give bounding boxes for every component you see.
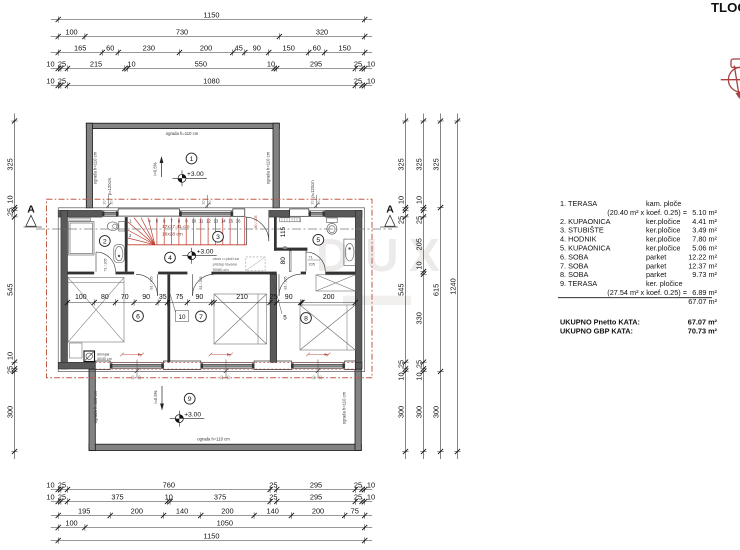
north window 60 (bathroom 2) <box>102 210 118 217</box>
svg-text:+3.00: +3.00 <box>197 249 214 256</box>
south french window 2 <box>201 362 254 369</box>
svg-text:325: 325 <box>432 158 441 170</box>
svg-text:230: 230 <box>143 44 155 53</box>
svg-text:10: 10 <box>6 195 15 203</box>
svg-text:parket: parket <box>646 261 666 270</box>
door to bathroom 5 <box>306 248 325 271</box>
svg-text:ograda h=110 cm: ograda h=110 cm <box>93 151 98 184</box>
room7 pillow line <box>257 294 259 344</box>
north facade thin outer line <box>58 207 365 209</box>
level marker +3.00 hallway <box>182 248 217 264</box>
svg-text:5.10 m²: 5.10 m² <box>692 208 717 217</box>
north wall segment 1 <box>58 210 102 217</box>
north window 200 (stairs) <box>180 210 233 217</box>
niche handle <box>282 246 287 249</box>
svg-text:150: 150 <box>339 44 351 53</box>
svg-text:20: 20 <box>208 201 212 205</box>
svg-text:200: 200 <box>200 44 212 53</box>
window sill labels north 2 <box>201 195 212 208</box>
right dimension line 3 325-615-300 <box>432 114 444 460</box>
svg-text:ker. pločice: ker. pločice <box>646 279 683 288</box>
svg-text:67.07 m²: 67.07 m² <box>688 297 717 306</box>
svg-text:25: 25 <box>58 493 66 502</box>
room label 3 (stubiste) <box>213 231 224 242</box>
svg-text:550: 550 <box>195 60 207 69</box>
svg-text:200: 200 <box>131 507 143 516</box>
north symbol <box>721 59 740 99</box>
svg-text:70: 70 <box>121 294 129 301</box>
red dotted line over south windows lower <box>95 368 355 370</box>
svg-text:10: 10 <box>367 493 375 502</box>
staircase treads <box>128 217 247 245</box>
svg-text:300: 300 <box>432 406 441 418</box>
top dimension line 100-730-320 <box>51 28 373 40</box>
svg-text:545: 545 <box>6 284 15 296</box>
bathroom5 toilet <box>327 218 338 234</box>
window sill labels south 2 <box>220 360 231 380</box>
svg-text:150: 150 <box>283 44 295 53</box>
svg-text:330: 330 <box>415 312 424 324</box>
door to bathroom 2 <box>96 252 116 272</box>
svg-text:75: 75 <box>351 507 359 516</box>
svg-text:10: 10 <box>367 60 375 69</box>
svg-text:80: 80 <box>280 257 287 265</box>
svg-text:5. KUPAONICA: 5. KUPAONICA <box>560 244 611 253</box>
svg-text:parket: parket <box>646 270 666 279</box>
room8 bed <box>300 305 355 350</box>
svg-text:20: 20 <box>319 376 323 380</box>
room label 7 (soba) <box>196 311 207 322</box>
room6 pillow line <box>68 282 124 284</box>
svg-text:9.73 m²: 9.73 m² <box>692 270 717 279</box>
upper terrace slope arrow i=0.5% <box>153 156 164 177</box>
bathroom2 shelf <box>69 218 91 221</box>
svg-text:20: 20 <box>317 201 321 205</box>
svg-text:1150: 1150 <box>204 532 220 541</box>
south wall pier box 4 <box>345 361 356 370</box>
svg-text:ker.pločice: ker.pločice <box>646 217 680 226</box>
corridor wall segment 2 <box>116 272 135 275</box>
roof outline dashed red <box>47 199 373 378</box>
svg-text:25: 25 <box>354 60 362 69</box>
svg-text:ograda h=110 cm: ograda h=110 cm <box>342 391 347 424</box>
room label 5 (kupaonica) <box>313 234 324 245</box>
east wall <box>355 210 362 369</box>
interior dimension chain <box>65 294 358 306</box>
svg-text:90: 90 <box>285 294 293 301</box>
west wall <box>61 210 68 369</box>
room label 2 (kupaonica) <box>99 236 110 247</box>
svg-text:7.80 m²: 7.80 m² <box>692 235 717 244</box>
svg-text:TLOCRT KATA: TLOCRT KATA <box>711 0 740 15</box>
svg-text:60: 60 <box>106 44 114 53</box>
svg-text:20: 20 <box>103 201 107 205</box>
svg-text:10: 10 <box>415 372 424 380</box>
red window dim 3 <box>306 353 330 357</box>
closet niche shelf <box>280 218 301 222</box>
svg-text:10: 10 <box>6 352 15 360</box>
svg-text:730: 730 <box>176 28 188 37</box>
svg-text:(20.40 m² x koef. 0.25) =: (20.40 m² x koef. 0.25) = <box>607 208 687 217</box>
svg-text:ograda h=110 cm: ograda h=110 cm <box>197 437 230 442</box>
svg-text:10: 10 <box>267 60 275 69</box>
svg-text:5: 5 <box>316 237 320 244</box>
svg-text:2. KUPAONICA: 2. KUPAONICA <box>560 217 611 226</box>
east facade thin outer line <box>364 208 366 372</box>
svg-text:1: 1 <box>190 156 194 163</box>
svg-text:25: 25 <box>58 77 66 86</box>
svg-text:100: 100 <box>65 28 77 37</box>
svg-text:8: 8 <box>304 315 308 322</box>
svg-text:10: 10 <box>178 314 186 321</box>
top dimension line 1150 <box>51 11 373 23</box>
svg-text:7: 7 <box>199 314 203 321</box>
svg-text:195: 195 <box>78 507 90 516</box>
svg-text:8. SOBA: 8. SOBA <box>560 270 589 279</box>
room area table <box>558 199 718 306</box>
red window dim 1 <box>120 353 144 357</box>
svg-text:71: 71 <box>309 256 313 260</box>
wall room2/stairwell <box>125 217 128 272</box>
svg-text:81 / 205: 81 / 205 <box>283 277 287 290</box>
svg-text:4: 4 <box>168 255 172 262</box>
south wall segment 2 <box>355 362 362 369</box>
svg-text:6. SOBA: 6. SOBA <box>560 252 589 261</box>
svg-text:25: 25 <box>6 208 15 216</box>
watermark <box>316 229 440 305</box>
upper terrace railing left <box>86 123 92 208</box>
room6 bed <box>68 278 124 343</box>
svg-text:115: 115 <box>280 226 287 237</box>
north wall pier box 1 <box>233 209 245 216</box>
lower terrace railing left <box>89 369 95 450</box>
bottom dimension line 100-1050 <box>51 519 373 531</box>
svg-text:10: 10 <box>46 77 54 86</box>
bathroom5 sink <box>344 239 355 265</box>
svg-text:25: 25 <box>269 481 277 490</box>
svg-text:parket: parket <box>646 252 666 261</box>
west facade thin outer line <box>57 208 59 372</box>
south facade thin outer line <box>58 371 365 373</box>
room label 4 (hodnik) <box>165 252 176 263</box>
staircase tread numbers <box>129 219 241 239</box>
svg-text:12.37 m²: 12.37 m² <box>688 261 717 270</box>
room8 closet <box>316 275 355 291</box>
svg-text:100: 100 <box>65 519 77 528</box>
svg-text:90 / 205: 90 / 205 <box>254 216 258 229</box>
svg-text:60: 60 <box>313 44 321 53</box>
svg-text:i=0.5%: i=0.5% <box>153 162 158 175</box>
svg-text:545: 545 <box>397 284 406 296</box>
section marker A left <box>24 204 43 228</box>
svg-text:20: 20 <box>138 376 142 380</box>
svg-text:67.07 m²: 67.07 m² <box>688 318 718 327</box>
wall rooms 7/8 <box>270 274 277 362</box>
right dimension line 1 325-10-25-545-25-10-300 <box>397 114 409 460</box>
svg-text:ker.pločice: ker.pločice <box>646 235 680 244</box>
room label 9 (terasa) <box>184 393 195 404</box>
corridor wall segment 5 <box>301 272 306 275</box>
svg-text:295: 295 <box>310 493 322 502</box>
svg-text:9: 9 <box>188 396 192 403</box>
svg-text:20: 20 <box>131 376 135 380</box>
svg-text:i=0.5%: i=0.5% <box>153 390 158 403</box>
bottom dimension line 195-200-140-200-140-200-75 <box>51 507 373 519</box>
door to room 8 <box>279 274 301 296</box>
svg-text:25: 25 <box>415 360 424 368</box>
svg-text:10: 10 <box>367 77 375 86</box>
svg-text:90: 90 <box>142 294 150 301</box>
south french window 3 <box>291 362 344 369</box>
window sill labels south 1 <box>131 360 142 380</box>
bathroom2 shower <box>69 222 95 256</box>
south french window 1 <box>110 362 163 369</box>
svg-text:300: 300 <box>397 406 406 418</box>
svg-text:1240: 1240 <box>449 278 458 294</box>
svg-text:81 / 205: 81 / 205 <box>199 277 203 290</box>
north wall pier box 2 <box>290 209 309 216</box>
svg-text:300: 300 <box>6 406 15 418</box>
svg-text:ker.pločice: ker.pločice <box>646 244 680 253</box>
table totals <box>560 318 718 336</box>
lower terrace slope arrow i=0.5% <box>153 386 164 411</box>
wall rooms 6/7 <box>167 274 170 362</box>
svg-text:90: 90 <box>253 44 261 53</box>
window sill labels north 1 <box>103 195 114 208</box>
svg-text:70.73 m²: 70.73 m² <box>688 326 718 335</box>
svg-text:90: 90 <box>196 294 204 301</box>
svg-text:11: 11 <box>199 219 204 224</box>
svg-text:10: 10 <box>46 481 54 490</box>
corridor wall segment 4 <box>211 272 276 275</box>
svg-text:375: 375 <box>111 493 123 502</box>
svg-text:14: 14 <box>221 219 226 224</box>
partition below niche <box>290 251 291 272</box>
north window 60 (bathroom 5) <box>309 210 325 217</box>
chimney dimnjak <box>84 351 95 362</box>
svg-text:165: 165 <box>74 44 86 53</box>
svg-text:15: 15 <box>228 219 233 224</box>
svg-text:20: 20 <box>109 201 113 205</box>
svg-text:20: 20 <box>201 201 205 205</box>
svg-text:13: 13 <box>214 219 219 224</box>
svg-text:205: 205 <box>309 263 315 267</box>
svg-text:10: 10 <box>415 196 424 204</box>
bathroom2 toilet <box>107 222 124 232</box>
svg-text:A: A <box>386 204 394 216</box>
svg-text:295: 295 <box>310 60 322 69</box>
svg-text:25: 25 <box>270 294 278 301</box>
door to room 7 <box>193 274 215 296</box>
staircase direction fan <box>128 218 155 245</box>
svg-text:10: 10 <box>397 372 406 380</box>
section line A-A <box>36 228 392 230</box>
svg-text:75: 75 <box>176 294 184 301</box>
section marker A right <box>380 204 398 228</box>
svg-text:10: 10 <box>367 481 375 490</box>
svg-text:p=120cm: p=120cm <box>107 177 112 195</box>
svg-text:5.06 m²: 5.06 m² <box>692 244 717 253</box>
door label 71/205 room5 <box>308 256 321 267</box>
svg-text:35: 35 <box>159 294 167 301</box>
svg-text:+3.00: +3.00 <box>184 411 201 418</box>
svg-text:1150: 1150 <box>204 11 220 20</box>
svg-text:200: 200 <box>323 294 335 301</box>
svg-text:10: 10 <box>46 493 54 502</box>
svg-text:20: 20 <box>310 201 314 205</box>
svg-text:210: 210 <box>236 294 248 301</box>
top dimension line 165..150 <box>51 44 373 56</box>
svg-text:20: 20 <box>220 376 224 380</box>
svg-text:12.22 m²: 12.22 m² <box>688 252 717 261</box>
svg-text:ograda h=110 cm: ograda h=110 cm <box>166 131 199 136</box>
attic opening dashed rect <box>246 257 265 271</box>
closet niche wall south <box>274 248 307 251</box>
svg-text:140: 140 <box>267 507 279 516</box>
window sill labels north 3 <box>310 195 321 208</box>
window sill labels south 3 <box>312 360 323 380</box>
svg-text:215: 215 <box>90 60 102 69</box>
level marker +3.00 upper terrace <box>173 170 208 186</box>
window frame nubs <box>102 211 345 368</box>
svg-text:25: 25 <box>354 481 362 490</box>
svg-text:10: 10 <box>397 196 406 204</box>
bottom dimension line 10-25-760-25-295-25-10 <box>46 481 375 493</box>
bathroom2 sink column <box>114 245 125 263</box>
svg-text:80: 80 <box>101 294 109 301</box>
svg-text:1050: 1050 <box>217 519 233 528</box>
corridor wall segment 6 <box>325 272 355 275</box>
callout wall 10 <box>170 292 189 322</box>
svg-text:UKUPNO GBP KATA:: UKUPNO GBP KATA: <box>560 326 633 335</box>
svg-text:25: 25 <box>415 216 424 224</box>
svg-text:20: 20 <box>227 376 231 380</box>
svg-text:10: 10 <box>415 261 424 269</box>
svg-text:A: A <box>27 204 35 216</box>
svg-text:1. TERASA: 1. TERASA <box>560 199 597 208</box>
svg-text:325: 325 <box>415 158 424 170</box>
door to room 6 <box>136 274 158 296</box>
svg-text:205: 205 <box>415 238 424 250</box>
left dimension line 325-10-25-545-25-10-300 <box>6 114 18 460</box>
svg-text:375: 375 <box>214 493 226 502</box>
svg-text:25: 25 <box>397 360 406 368</box>
red window dim 2 <box>209 353 233 357</box>
svg-text:kam. ploče: kam. ploče <box>646 199 681 208</box>
lower terrace railing bottom <box>89 444 361 450</box>
svg-text:16: 16 <box>236 219 241 224</box>
room label 1 (terasa) <box>186 153 197 164</box>
corridor wall segment 1 <box>68 272 95 275</box>
svg-text:9. TERASA: 9. TERASA <box>560 279 597 288</box>
svg-text:10: 10 <box>127 60 135 69</box>
room label 6 (soba) <box>133 311 144 322</box>
svg-text:3: 3 <box>216 234 220 241</box>
svg-text:325: 325 <box>397 158 406 170</box>
svg-text:200: 200 <box>312 507 324 516</box>
lower terrace railing right <box>355 369 361 450</box>
svg-text:10: 10 <box>165 493 173 502</box>
svg-text:(27.54 m² x koef. 0.25) =: (27.54 m² x koef. 0.25) = <box>607 288 687 297</box>
svg-text:200: 200 <box>221 507 233 516</box>
svg-text:2: 2 <box>103 238 107 245</box>
right dimension line 2 325-10-25-205-10-330-25-10-300 <box>415 114 427 460</box>
right dimension line 4 1240 <box>449 114 461 460</box>
svg-text:81 / 205: 81 / 205 <box>149 277 153 290</box>
room label 8 (soba) <box>301 313 312 324</box>
svg-text:10: 10 <box>191 219 196 224</box>
door to upper terrace <box>245 217 269 241</box>
top dimension line 10-25-1080-25-10 <box>46 77 375 89</box>
svg-text:ograda h=110 cm: ograda h=110 cm <box>266 151 271 184</box>
svg-text:6.89 m²: 6.89 m² <box>692 288 717 297</box>
svg-text:12: 12 <box>206 219 211 224</box>
svg-text:16x28 cm: 16x28 cm <box>162 231 183 237</box>
svg-text:4. HODNIK: 4. HODNIK <box>560 235 597 244</box>
room8 pillow line <box>346 305 348 350</box>
south wall pier box 1 <box>95 361 110 370</box>
svg-text:ograda h=110 cm: ograda h=110 cm <box>93 390 98 423</box>
south wall pier box 2 <box>164 361 201 370</box>
svg-text:+3.00: +3.00 <box>187 171 204 178</box>
svg-text:615: 615 <box>432 284 441 296</box>
svg-text:300: 300 <box>415 406 424 418</box>
svg-text:UKUPNO Pnetto KATA:: UKUPNO Pnetto KATA: <box>560 318 640 327</box>
svg-text:ker.pločice: ker.pločice <box>646 226 680 235</box>
south wall segment 1 <box>58 362 95 369</box>
svg-text:45: 45 <box>235 44 243 53</box>
closet niche wall west <box>274 217 277 251</box>
bottom dimension line 10-25-375-10-375-25-295-25-10 <box>46 493 375 505</box>
svg-text:6: 6 <box>136 313 140 320</box>
svg-text:p=120cm: p=120cm <box>310 180 315 198</box>
svg-text:100: 100 <box>75 294 87 301</box>
bottom dimension line 1150 <box>51 532 373 544</box>
svg-text:25: 25 <box>6 366 15 374</box>
level marker +3.00 lower terrace <box>170 411 205 427</box>
north wall lintel box over stairwell <box>118 209 179 216</box>
svg-text:320: 320 <box>316 28 328 37</box>
svg-text:25: 25 <box>354 77 362 86</box>
room6 nightstand <box>70 343 83 358</box>
svg-text:1080: 1080 <box>203 77 219 86</box>
corridor wall segment 3 <box>158 272 187 275</box>
svg-text:71 / 205: 71 / 205 <box>103 259 107 272</box>
svg-text:5: 5 <box>283 315 287 322</box>
svg-text:760: 760 <box>163 481 175 490</box>
svg-text:25: 25 <box>58 481 66 490</box>
svg-text:3. STUBIŠTE: 3. STUBIŠTE <box>560 226 604 235</box>
svg-text:295: 295 <box>310 481 322 490</box>
svg-text:25: 25 <box>397 216 406 224</box>
svg-text:325: 325 <box>6 158 15 170</box>
svg-text:3.49 m²: 3.49 m² <box>692 226 717 235</box>
svg-text:10: 10 <box>46 60 54 69</box>
top dimension line 10-25-215-10-550-10-295-25-10 <box>46 60 375 72</box>
room7 bed <box>214 294 267 344</box>
svg-text:25: 25 <box>58 60 66 69</box>
svg-text:25: 25 <box>269 493 277 502</box>
svg-text:4.41 m²: 4.41 m² <box>692 217 717 226</box>
svg-text:140: 140 <box>176 507 188 516</box>
upper terrace railing right <box>273 123 279 208</box>
south wall pier box 3 <box>254 361 291 370</box>
red dotted line over south windows upper <box>95 362 355 364</box>
svg-text:25: 25 <box>354 493 362 502</box>
north wall segment 3 <box>325 210 362 217</box>
callout wall 5 <box>273 279 288 322</box>
upper terrace railing top <box>86 123 279 128</box>
